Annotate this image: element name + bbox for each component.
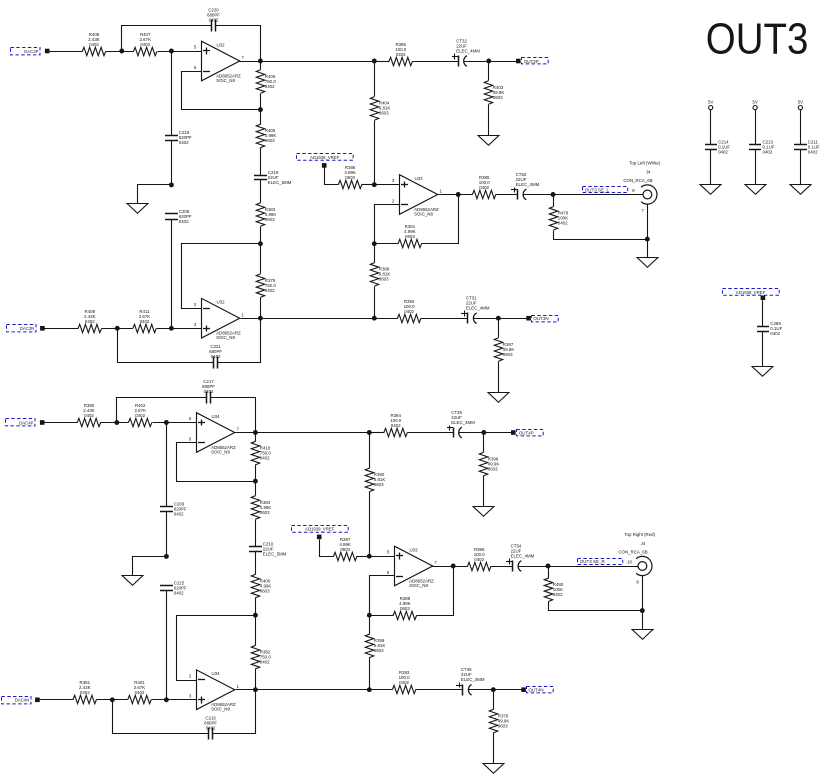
wire bbox=[422, 195, 459, 244]
svg-text:0603: 0603 bbox=[405, 234, 415, 239]
wire bbox=[523, 194, 644, 196]
node OUT4P bbox=[517, 430, 544, 436]
junction bbox=[169, 49, 174, 54]
wire bbox=[236, 689, 370, 691]
wire bbox=[171, 220, 173, 329]
node AD1939_VREF bbox=[297, 154, 354, 161]
junction bbox=[258, 59, 263, 64]
svg-text:0402: 0402 bbox=[89, 42, 99, 47]
svg-text:0402: 0402 bbox=[260, 455, 270, 460]
capacitor C218 bbox=[165, 130, 192, 145]
junction bbox=[367, 613, 372, 618]
wire bbox=[375, 243, 399, 245]
junction bbox=[115, 326, 120, 331]
wire bbox=[369, 492, 371, 557]
capacitor C219 bbox=[254, 170, 292, 185]
capacitor CT53 bbox=[511, 172, 540, 200]
resistor R380 bbox=[77, 403, 100, 427]
junction bbox=[114, 420, 119, 425]
resistor R403 bbox=[484, 81, 504, 104]
wire bbox=[166, 591, 168, 700]
capacitor CT31 bbox=[461, 296, 490, 324]
wire bbox=[493, 690, 495, 710]
junction bbox=[253, 613, 258, 618]
svg-text:OUT3N: OUT3N bbox=[533, 316, 548, 321]
node AD1939_VREF bbox=[723, 289, 780, 296]
svg-text:0402: 0402 bbox=[174, 590, 184, 595]
ground bbox=[637, 258, 658, 268]
junction bbox=[110, 697, 115, 702]
resistor R384 bbox=[251, 496, 271, 519]
wire bbox=[370, 689, 393, 691]
ground bbox=[745, 185, 766, 195]
svg-text:0402: 0402 bbox=[479, 185, 489, 190]
junction bbox=[486, 59, 491, 64]
wire bbox=[549, 602, 643, 611]
terminal OUT3N bbox=[526, 316, 531, 321]
wire bbox=[255, 433, 257, 442]
svg-text:0402: 0402 bbox=[763, 150, 773, 155]
resistor R407 bbox=[133, 32, 156, 56]
capacitor C213 bbox=[749, 140, 775, 155]
junction bbox=[253, 687, 258, 692]
wire bbox=[370, 615, 394, 617]
wire bbox=[408, 432, 454, 434]
svg-text:U33: U33 bbox=[415, 176, 424, 181]
wire bbox=[213, 690, 256, 734]
wire bbox=[240, 61, 375, 63]
svg-text:0402: 0402 bbox=[553, 592, 563, 597]
svg-text:U34: U34 bbox=[212, 414, 221, 419]
wire bbox=[374, 244, 376, 263]
svg-text:0402: 0402 bbox=[718, 150, 728, 155]
wire bbox=[370, 576, 395, 616]
wire bbox=[182, 72, 261, 110]
wire bbox=[177, 443, 256, 482]
svg-text:0402: 0402 bbox=[135, 413, 145, 418]
wire bbox=[474, 318, 527, 320]
svg-text:0402: 0402 bbox=[174, 512, 184, 517]
svg-text:0402: 0402 bbox=[391, 423, 401, 428]
svg-text:DAC4P: DAC4P bbox=[19, 420, 33, 425]
resistor R383 bbox=[256, 203, 276, 226]
wire bbox=[483, 433, 485, 453]
junction bbox=[119, 49, 124, 54]
svg-text:SOIC_N8: SOIC_N8 bbox=[211, 707, 230, 712]
terminal AD1939_VREF bbox=[761, 296, 766, 301]
resistor R393 bbox=[392, 670, 415, 694]
svg-text:OUT4N: OUT4N bbox=[528, 688, 543, 693]
svg-text:0402: 0402 bbox=[179, 140, 189, 145]
resistor R401 bbox=[128, 680, 151, 704]
svg-text:5V: 5V bbox=[708, 99, 713, 104]
svg-text:ELEC_5MM: ELEC_5MM bbox=[268, 180, 292, 185]
junction bbox=[169, 182, 174, 187]
svg-text:J4: J4 bbox=[641, 541, 646, 546]
wire bbox=[166, 512, 168, 557]
ground bbox=[700, 185, 721, 195]
node DAC4P bbox=[6, 419, 36, 426]
junction bbox=[640, 608, 645, 613]
svg-text:ELEC_4MM: ELEC_4MM bbox=[461, 677, 485, 682]
wire bbox=[255, 520, 257, 547]
resistor R378 bbox=[489, 709, 509, 732]
junction bbox=[372, 241, 377, 246]
svg-text:0402: 0402 bbox=[211, 354, 221, 359]
ground bbox=[122, 576, 143, 586]
ground bbox=[632, 630, 653, 640]
svg-text:0402: 0402 bbox=[265, 84, 275, 89]
resistor R387 bbox=[333, 537, 356, 561]
resistor R406 bbox=[256, 70, 276, 93]
wire bbox=[158, 51, 202, 53]
wire bbox=[433, 566, 468, 568]
node DAC4N bbox=[2, 697, 32, 704]
svg-text:ELEC_5MM: ELEC_5MM bbox=[263, 552, 287, 557]
junction bbox=[551, 192, 556, 197]
junction bbox=[491, 687, 496, 692]
resistor R408 bbox=[82, 32, 105, 56]
junction bbox=[496, 316, 501, 321]
wire bbox=[710, 110, 712, 145]
svg-text:0402: 0402 bbox=[206, 725, 216, 730]
junction bbox=[258, 241, 263, 246]
node AD1939_VREF bbox=[292, 526, 349, 533]
svg-text:AD1939_VREF: AD1939_VREF bbox=[736, 290, 766, 295]
wire bbox=[255, 465, 257, 496]
wire bbox=[260, 62, 262, 70]
wire bbox=[106, 51, 134, 53]
wire bbox=[488, 62, 490, 81]
wire bbox=[375, 61, 390, 63]
svg-text:0402: 0402 bbox=[474, 557, 484, 562]
svg-text:CON_RCA_6B: CON_RCA_6B bbox=[618, 549, 647, 554]
wire bbox=[182, 244, 261, 309]
wire bbox=[122, 26, 212, 52]
junction bbox=[645, 237, 650, 242]
node OUT3N bbox=[532, 316, 559, 322]
junction bbox=[258, 107, 263, 112]
ground bbox=[478, 136, 499, 146]
connector J4 CON_RCA_6B (Top Right (Red)) bbox=[618, 532, 655, 584]
wire bbox=[374, 121, 376, 185]
wire bbox=[762, 301, 764, 327]
svg-text:0402: 0402 bbox=[396, 52, 406, 57]
junction bbox=[367, 554, 372, 559]
resistor R400 bbox=[251, 574, 271, 597]
svg-text:0603: 0603 bbox=[503, 352, 513, 357]
wire bbox=[260, 94, 262, 125]
svg-text:0603: 0603 bbox=[498, 723, 508, 728]
wire bbox=[800, 110, 802, 145]
power 5V (C214 rail) bbox=[708, 99, 713, 109]
resistor R389 bbox=[370, 263, 390, 286]
wire bbox=[260, 227, 262, 244]
junction bbox=[164, 697, 169, 702]
svg-text:AD1939_VREF: AD1939_VREF bbox=[305, 526, 335, 531]
junction bbox=[372, 182, 377, 187]
wire bbox=[113, 700, 209, 734]
wire bbox=[413, 61, 459, 63]
terminal DAC3P bbox=[45, 49, 50, 54]
capacitor C216 bbox=[204, 715, 217, 739]
svg-text:J4: J4 bbox=[646, 170, 651, 175]
terminal DAC4P bbox=[40, 420, 45, 425]
wire bbox=[488, 105, 490, 136]
wire bbox=[375, 184, 400, 186]
svg-text:ELEC_4MM: ELEC_4MM bbox=[451, 420, 475, 425]
resistor R404 bbox=[370, 97, 390, 120]
wire bbox=[374, 62, 376, 97]
capacitor C209 bbox=[160, 502, 187, 517]
ground bbox=[483, 764, 504, 774]
junction bbox=[451, 564, 456, 569]
resistor R381 bbox=[73, 680, 96, 704]
op-amp U33 bbox=[392, 175, 443, 217]
node OUT3P bbox=[522, 58, 549, 64]
svg-text:0402: 0402 bbox=[84, 413, 94, 418]
junction bbox=[367, 687, 372, 692]
capacitor C211 bbox=[794, 140, 820, 155]
capacitor C208 bbox=[165, 209, 192, 224]
svg-text:10: 10 bbox=[627, 560, 632, 565]
svg-text:ELEC_4MM: ELEC_4MM bbox=[516, 182, 540, 187]
wire bbox=[260, 298, 262, 319]
wire bbox=[152, 699, 197, 701]
resistor R480 bbox=[544, 578, 564, 601]
svg-text:0603: 0603 bbox=[488, 466, 498, 471]
wire bbox=[469, 689, 522, 691]
svg-text:U32: U32 bbox=[217, 300, 226, 305]
wire bbox=[459, 432, 512, 434]
op-amp U32 bbox=[194, 298, 245, 340]
wire bbox=[50, 51, 83, 53]
capacitor C210 bbox=[249, 542, 287, 557]
junction bbox=[258, 316, 263, 321]
svg-text:0603: 0603 bbox=[374, 482, 384, 487]
svg-text:U32: U32 bbox=[217, 42, 226, 47]
wire bbox=[255, 616, 257, 646]
wire bbox=[362, 184, 375, 186]
junction bbox=[253, 430, 258, 435]
wire bbox=[416, 689, 463, 691]
svg-text:ELEC_4MM: ELEC_4MM bbox=[511, 553, 535, 558]
resistor R410 bbox=[251, 441, 271, 464]
ground bbox=[488, 393, 509, 403]
resistor R391 bbox=[398, 224, 421, 248]
svg-text:0402: 0402 bbox=[770, 331, 780, 336]
junction bbox=[164, 554, 169, 559]
wire bbox=[255, 598, 257, 616]
resistor R405 bbox=[256, 124, 276, 147]
capacitor CT35 bbox=[447, 410, 475, 438]
svg-text:DAC3P: DAC3P bbox=[24, 49, 38, 54]
svg-text:Top Right (Red): Top Right (Red) bbox=[624, 532, 655, 537]
capacitor C214 bbox=[705, 140, 730, 155]
wire bbox=[102, 328, 133, 330]
svg-text:0402: 0402 bbox=[265, 288, 275, 293]
junction bbox=[169, 326, 174, 331]
wire bbox=[647, 205, 649, 258]
wire bbox=[260, 148, 262, 176]
power 5V (C211 rail) bbox=[798, 99, 803, 109]
terminal OUT4P bbox=[511, 430, 516, 435]
node OUT3 SE_L bbox=[583, 187, 628, 193]
svg-text:5V: 5V bbox=[752, 99, 757, 104]
wire bbox=[255, 552, 257, 575]
wire bbox=[117, 398, 207, 423]
wire bbox=[369, 658, 371, 690]
wire bbox=[491, 566, 513, 568]
wire bbox=[235, 432, 370, 434]
svg-text:0603: 0603 bbox=[265, 138, 275, 143]
wire bbox=[369, 433, 371, 469]
junction bbox=[456, 192, 461, 197]
svg-text:0603: 0603 bbox=[379, 111, 389, 116]
resistor R409 bbox=[78, 309, 101, 333]
wire bbox=[157, 328, 202, 330]
resistor R395 bbox=[389, 42, 412, 66]
resistor R392 bbox=[397, 299, 420, 323]
op-amp U34 bbox=[189, 413, 240, 455]
node OUT3 SE_R bbox=[578, 559, 623, 565]
svg-text:OUT3 SE_L: OUT3 SE_L bbox=[585, 187, 610, 192]
capacitor C220 bbox=[207, 7, 220, 31]
terminal DAC4N bbox=[35, 698, 40, 703]
wire bbox=[118, 329, 214, 363]
wire bbox=[370, 432, 385, 434]
svg-text:U33: U33 bbox=[410, 547, 419, 552]
connector J4 CON_RCA_6B (Top Left (White)) bbox=[623, 161, 660, 213]
terminal DAC3N bbox=[40, 326, 45, 331]
svg-text:0402: 0402 bbox=[140, 319, 150, 324]
svg-text:0402: 0402 bbox=[399, 680, 409, 685]
junction bbox=[546, 564, 551, 569]
svg-text:ELEC_4MM: ELEC_4MM bbox=[466, 306, 490, 311]
svg-text:0603: 0603 bbox=[345, 175, 355, 180]
svg-text:SOIC_N8: SOIC_N8 bbox=[414, 211, 433, 216]
wire bbox=[438, 194, 473, 196]
wire bbox=[171, 141, 173, 185]
resistor R397 bbox=[494, 338, 514, 361]
svg-text:Top Left (White): Top Left (White) bbox=[629, 161, 661, 166]
op-amp U32 bbox=[194, 41, 245, 83]
svg-text:0402: 0402 bbox=[140, 42, 150, 47]
wire bbox=[218, 319, 261, 363]
wire bbox=[138, 185, 172, 204]
node OUT4N bbox=[527, 687, 554, 693]
wire bbox=[101, 422, 129, 424]
wire bbox=[369, 616, 371, 635]
svg-text:0603: 0603 bbox=[260, 510, 270, 515]
wire bbox=[548, 567, 550, 579]
wire bbox=[133, 557, 167, 576]
junction bbox=[164, 420, 169, 425]
wire bbox=[755, 150, 757, 185]
svg-text:OUT4P: OUT4P bbox=[519, 430, 534, 435]
svg-text:0603: 0603 bbox=[265, 217, 275, 222]
wire bbox=[211, 398, 256, 433]
svg-text:OUT3 SE_R: OUT3 SE_R bbox=[580, 559, 606, 564]
resistor R390 bbox=[365, 468, 385, 491]
wire bbox=[45, 328, 79, 330]
wire bbox=[260, 244, 262, 274]
wire bbox=[171, 52, 173, 136]
resistor R394 bbox=[384, 413, 407, 437]
svg-text:AD1939_VREF: AD1939_VREF bbox=[310, 155, 340, 160]
wire bbox=[241, 318, 375, 320]
terminal AD1939_VREF bbox=[322, 163, 327, 168]
svg-text:0603: 0603 bbox=[379, 277, 389, 282]
wire bbox=[320, 540, 334, 557]
resistor R479 bbox=[549, 207, 569, 230]
svg-text:OUT3P: OUT3P bbox=[524, 59, 539, 64]
wire bbox=[498, 319, 500, 338]
svg-text:0402: 0402 bbox=[135, 690, 145, 695]
svg-text:0402: 0402 bbox=[204, 389, 214, 394]
svg-text:5V: 5V bbox=[798, 99, 803, 104]
wire bbox=[177, 616, 256, 681]
terminal OUT3P bbox=[516, 59, 521, 64]
op-amp U34 bbox=[189, 670, 240, 712]
wire bbox=[464, 61, 517, 63]
node DAC3N bbox=[7, 325, 37, 332]
junction bbox=[372, 316, 377, 321]
svg-text:0402: 0402 bbox=[85, 319, 95, 324]
wire bbox=[554, 231, 648, 240]
node DAC3P bbox=[11, 48, 41, 55]
ground bbox=[473, 507, 494, 517]
svg-text:SOIC_N8: SOIC_N8 bbox=[409, 583, 428, 588]
wire bbox=[417, 567, 454, 616]
wire bbox=[40, 699, 74, 701]
svg-text:ELEC_4MM: ELEC_4MM bbox=[456, 48, 480, 53]
wire bbox=[325, 168, 339, 185]
capacitor CT54 bbox=[506, 543, 535, 571]
wire bbox=[166, 423, 168, 507]
resistor R411 bbox=[133, 309, 156, 333]
wire bbox=[493, 733, 495, 764]
wire bbox=[357, 556, 370, 558]
svg-text:0603: 0603 bbox=[374, 648, 384, 653]
junction bbox=[253, 479, 258, 484]
capacitor C221 bbox=[209, 344, 222, 369]
wire bbox=[755, 110, 757, 145]
capacitor C215 bbox=[160, 580, 187, 595]
junction bbox=[481, 430, 486, 435]
svg-text:0603: 0603 bbox=[340, 547, 350, 552]
wire bbox=[421, 318, 468, 320]
wire bbox=[45, 422, 78, 424]
wire bbox=[498, 362, 500, 393]
capacitor CT32 bbox=[452, 38, 480, 66]
svg-text:U34: U34 bbox=[212, 671, 221, 676]
svg-text:0402: 0402 bbox=[179, 219, 189, 224]
resistor R379 bbox=[256, 274, 276, 297]
resistor R388 bbox=[393, 596, 416, 620]
svg-text:0402: 0402 bbox=[209, 17, 219, 22]
svg-text:0603: 0603 bbox=[260, 588, 270, 593]
ground bbox=[752, 367, 773, 377]
wire bbox=[260, 180, 262, 203]
wire bbox=[710, 150, 712, 185]
resistor R382 bbox=[251, 645, 271, 668]
wire bbox=[496, 194, 518, 196]
power 5V (C213 rail) bbox=[752, 99, 757, 109]
resistor R399 bbox=[365, 634, 385, 657]
wire bbox=[97, 699, 128, 701]
svg-text:DAC4N: DAC4N bbox=[15, 698, 30, 703]
